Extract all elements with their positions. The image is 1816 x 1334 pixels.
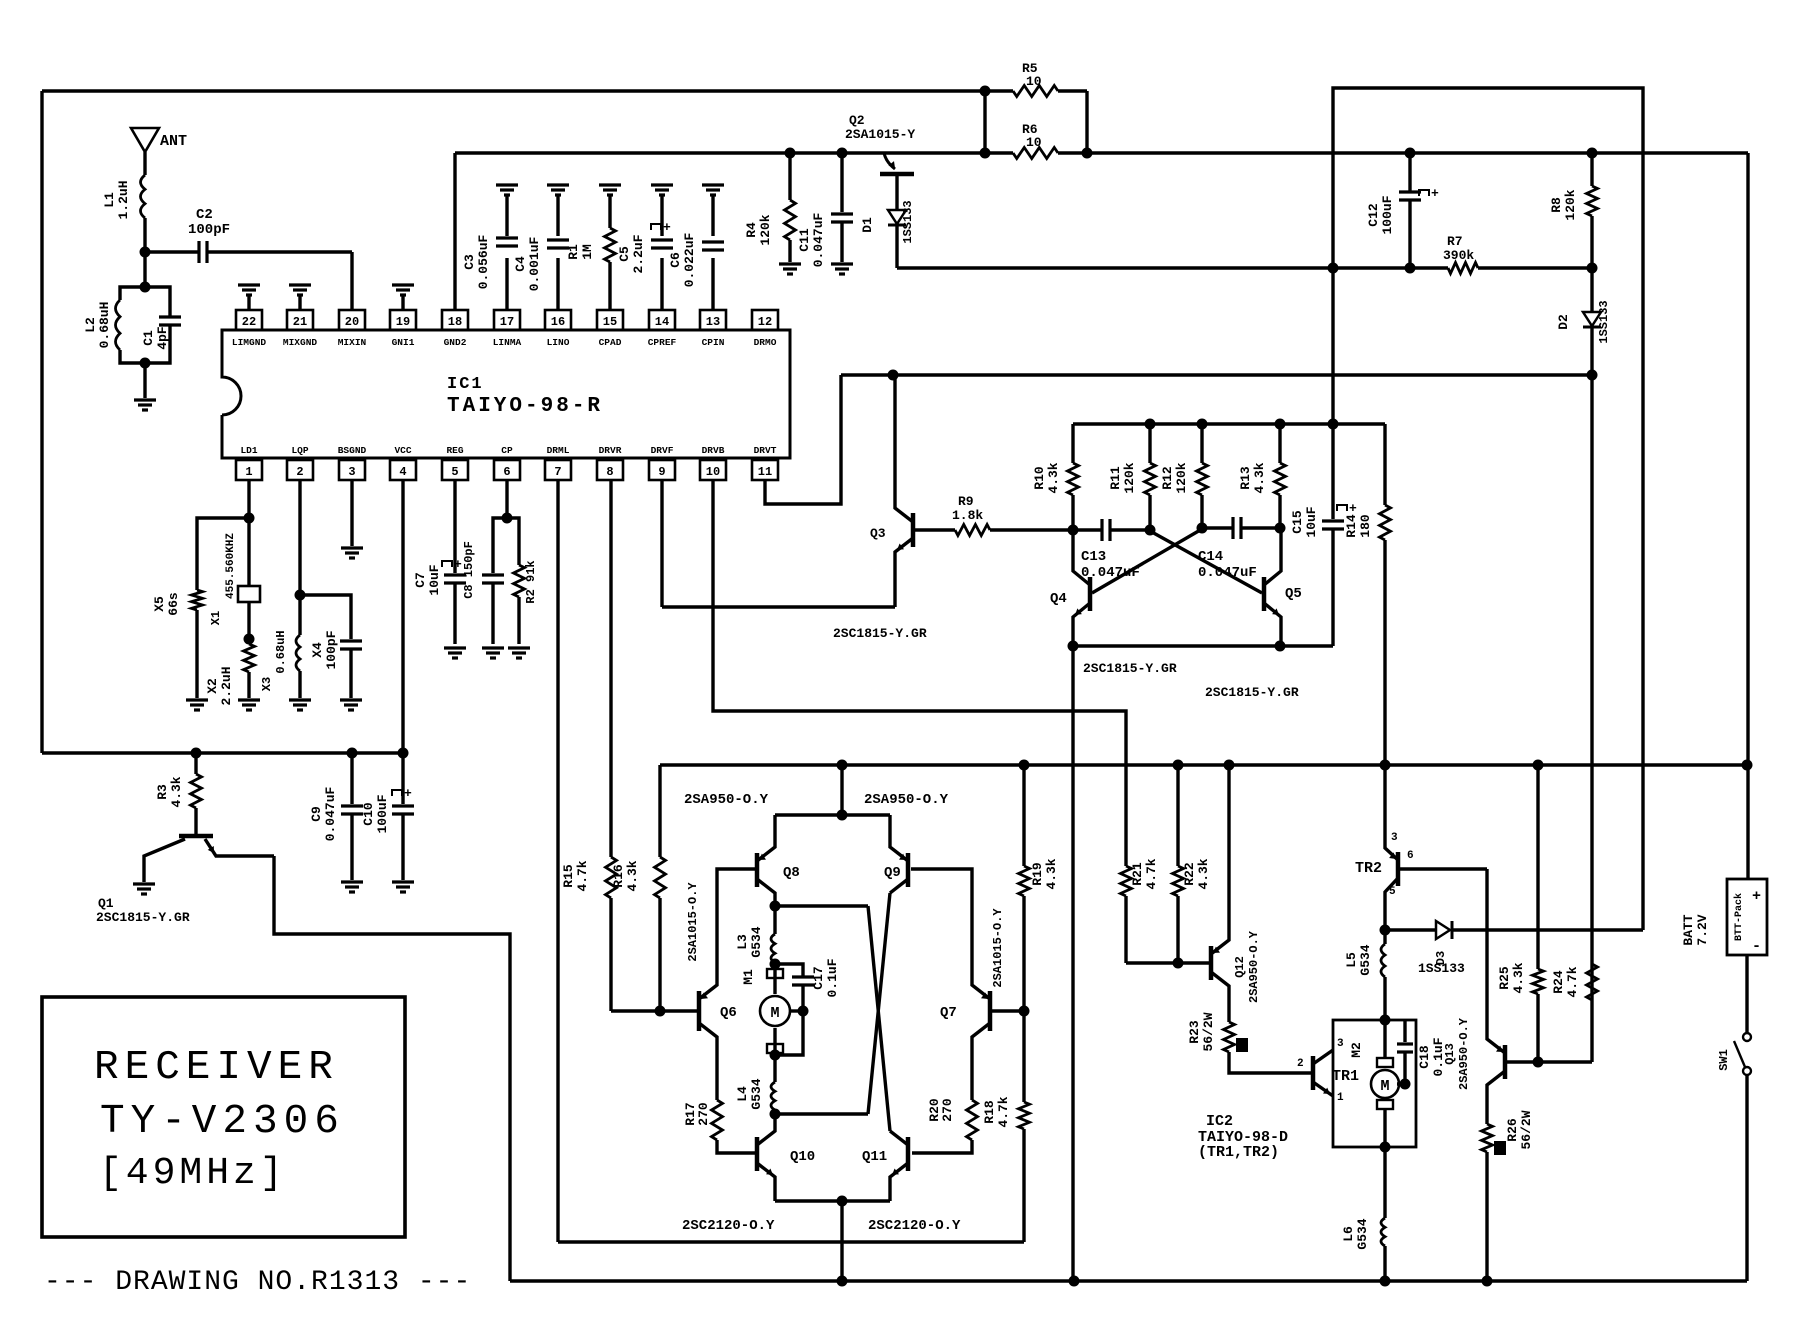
wire D1 output y268 [897, 266, 1448, 269]
svg-text:+: + [663, 220, 671, 235]
svg-text:DRML: DRML [547, 445, 570, 456]
capacitor C12 [1408, 153, 1411, 192]
svg-text:1.8k: 1.8k [952, 508, 983, 523]
battery BATT 7.2V [1727, 879, 1767, 955]
svg-text:CP: CP [501, 445, 513, 456]
svg-text:56/2W: 56/2W [1519, 1110, 1534, 1149]
svg-text:TR1: TR1 [1332, 1068, 1359, 1085]
svg-text:10uF: 10uF [1304, 506, 1319, 537]
svg-text:1: 1 [1337, 1092, 1344, 1104]
transistor TR1 [1311, 1056, 1316, 1090]
svg-text:R8: R8 [1549, 197, 1564, 213]
transistor Q11 2SC2120-O.Y [906, 1137, 911, 1171]
resistor R11 [1148, 424, 1151, 463]
capacitor C6 [711, 196, 714, 236]
inductor L3 G534 [773, 906, 776, 934]
node TR2 collector [1380, 925, 1391, 936]
capacitor C15 [1331, 424, 1334, 519]
capacitor C5 [660, 196, 663, 236]
svg-text:1.2uH: 1.2uH [116, 180, 131, 219]
svg-text:C12: C12 [1366, 203, 1381, 227]
svg-text:CPIN: CPIN [702, 337, 725, 348]
svg-text:Q12: Q12 [1233, 956, 1247, 978]
node R6 right [1082, 148, 1093, 159]
svg-text:X1: X1 [209, 611, 223, 625]
svg-text:X3: X3 [260, 677, 274, 691]
svg-text:R19: R19 [1030, 862, 1045, 886]
pin 2 box [287, 460, 313, 480]
node L2C1 bottom [140, 358, 151, 369]
wire pin18 riser [453, 153, 456, 310]
capacitor C13 [1073, 528, 1102, 531]
transistor Q6 2SA1015-O.Y [697, 991, 702, 1031]
resistor X5 66k [197, 518, 249, 590]
svg-text:120k: 120k [1563, 189, 1578, 220]
svg-text:G534: G534 [749, 926, 764, 957]
node R7 right [1587, 263, 1598, 274]
pin 19 box [390, 310, 416, 330]
svg-text:R25: R25 [1497, 966, 1512, 990]
node R10-C13 [1068, 525, 1079, 536]
inductor L2 [120, 287, 145, 300]
svg-text:2SC1815-Y.GR: 2SC1815-Y.GR [833, 626, 927, 641]
svg-text:(TR1,TR2): (TR1,TR2) [1198, 1144, 1279, 1161]
pin 9 box [649, 460, 675, 480]
svg-text:17: 17 [500, 315, 514, 329]
resistor R3 [194, 753, 197, 774]
resistor R16 [658, 765, 661, 857]
svg-text:R10: R10 [1032, 466, 1047, 490]
node ant-C2 [140, 247, 151, 258]
svg-text:C13: C13 [1081, 549, 1106, 565]
transistor TR2 [1396, 852, 1401, 886]
svg-text:C1: C1 [141, 330, 156, 346]
svg-text:2SA1015-O.Y: 2SA1015-O.Y [991, 908, 1005, 988]
node pin1 [244, 513, 255, 524]
capacitor C11 [840, 153, 843, 212]
svg-text:1SS133: 1SS133 [901, 200, 915, 243]
svg-text:X2: X2 [205, 678, 220, 694]
inductor X3 0.68uH [296, 635, 300, 671]
svg-text:L5: L5 [1344, 952, 1359, 968]
resistor R6 [1013, 148, 1058, 159]
svg-text:LQP: LQP [291, 445, 308, 456]
svg-text:Q4: Q4 [1050, 591, 1067, 607]
transistor Q9 2SA950-O.Y [906, 853, 911, 887]
capacitor X4 100pF [300, 595, 351, 639]
wire cross D2 [868, 893, 890, 1114]
svg-text:+: + [1431, 186, 1439, 201]
svg-text:10uF: 10uF [427, 564, 442, 595]
resistor R2 [507, 518, 519, 565]
pin 8 box [597, 460, 623, 480]
svg-text:4.3k: 4.3k [1046, 462, 1061, 493]
wire top border / V+ rail [42, 89, 1013, 92]
svg-text:ANT: ANT [160, 133, 187, 150]
svg-text:C17: C17 [811, 966, 826, 989]
svg-text:G534: G534 [1358, 944, 1373, 975]
svg-text:2SA1015-O.Y: 2SA1015-O.Y [686, 882, 700, 962]
motor M1 [773, 964, 776, 994]
svg-text:--- DRAWING NO.R1313 ---: --- DRAWING NO.R1313 --- [44, 1267, 471, 1298]
node X1 bottom [244, 634, 255, 645]
svg-text:2SA950-O.Y: 2SA950-O.Y [684, 792, 769, 808]
svg-text:R22: R22 [1182, 862, 1197, 886]
transistor Q4 2SC1815-Y.GR [1088, 577, 1093, 611]
svg-text:RECEIVER: RECEIVER [94, 1045, 339, 1091]
svg-text:4.3k: 4.3k [1511, 962, 1526, 993]
wire cross D1 [775, 904, 868, 907]
svg-text:C2: C2 [196, 207, 213, 223]
svg-text:2SA950-O.Y: 2SA950-O.Y [1247, 930, 1261, 1003]
svg-text:L1: L1 [102, 192, 117, 208]
svg-text:C8 150pF: C8 150pF [462, 541, 476, 599]
wire pin8 riser [609, 480, 612, 857]
wire pin1 down [247, 480, 250, 518]
inductor X2 2.2uH [244, 644, 255, 672]
svg-text:IC1: IC1 [447, 375, 484, 394]
svg-text:C6: C6 [668, 252, 683, 268]
svg-text:4.3k: 4.3k [625, 860, 640, 891]
node Q8 collector [770, 901, 781, 912]
svg-text:120k: 120k [1122, 462, 1137, 493]
svg-text:R12: R12 [1160, 466, 1175, 490]
pin 18 box [442, 310, 468, 330]
svg-text:2.2uH: 2.2uH [219, 666, 234, 705]
svg-text:Q1: Q1 [98, 896, 114, 911]
resistor R1 [608, 196, 611, 228]
wire osc bottom rail [1073, 644, 1333, 647]
transistor Q5 2SC1815-Y.GR [1262, 577, 1267, 611]
inductor L6 G534 [1383, 1147, 1386, 1218]
node bus osc [1069, 1276, 1080, 1287]
svg-text:8: 8 [606, 465, 613, 479]
svg-text:R24: R24 [1551, 970, 1566, 994]
motor M2 box [1333, 1020, 1416, 1147]
svg-text:0.047uF: 0.047uF [323, 786, 338, 841]
transistor Q12 2SA950-O.Y [1209, 946, 1214, 980]
svg-text:2SC1815-Y.GR: 2SC1815-Y.GR [96, 910, 190, 925]
title box RECEIVER TY-V2306 [42, 997, 405, 1237]
capacitor C3 [505, 196, 508, 236]
svg-text:10: 10 [706, 465, 720, 479]
wire main bus y765 [660, 763, 1747, 766]
svg-text:0.001uF: 0.001uF [527, 236, 542, 291]
inductor L5 G534 [1383, 930, 1386, 944]
node Q13 base [1533, 1057, 1544, 1068]
inductor L1 [141, 175, 146, 218]
wire pin9 to Q3 [660, 480, 663, 607]
ground Q1 [133, 882, 155, 885]
svg-text:CPREF: CPREF [648, 337, 677, 348]
wire pin2 down [298, 480, 301, 595]
resistor R17 [712, 1100, 723, 1140]
wire left border down to ground bus [40, 91, 43, 753]
IC U1 TAIYO-98-R body [222, 330, 790, 458]
pin 11 box [752, 460, 778, 480]
svg-text:MIXIN: MIXIN [338, 337, 367, 348]
resistor R24 [1587, 964, 1598, 1000]
resistor R13 [1278, 424, 1281, 463]
svg-text:+: + [1752, 888, 1761, 905]
wire Q5 cross-couple [1150, 531, 1262, 593]
resistor R4 [788, 153, 791, 200]
svg-text:1: 1 [245, 465, 252, 479]
resistor R14 [1383, 424, 1386, 505]
svg-text:L6: L6 [1341, 1226, 1356, 1242]
resistor R8 [1590, 153, 1593, 186]
svg-text:3: 3 [1337, 1038, 1344, 1050]
svg-text:270: 270 [940, 1098, 955, 1122]
resistor R10 [1071, 424, 1074, 463]
wire ground bus left [42, 751, 404, 754]
svg-text:L2: L2 [83, 317, 98, 333]
svg-text:6: 6 [503, 465, 510, 479]
svg-text:100uF: 100uF [1380, 195, 1395, 234]
svg-text:4pF: 4pF [155, 326, 170, 350]
svg-text:MIXGND: MIXGND [283, 337, 318, 348]
svg-text:Q2: Q2 [849, 113, 865, 128]
svg-text:R26: R26 [1505, 1118, 1520, 1142]
pin 20 box [339, 310, 365, 330]
motor M2 [1383, 1020, 1386, 1058]
node C12 bottom [1405, 263, 1416, 274]
svg-text:+: + [404, 786, 412, 801]
wire D2 to R24 x1592 [1590, 375, 1593, 1062]
svg-text:7: 7 [554, 465, 561, 479]
svg-text:15: 15 [603, 315, 617, 329]
svg-text:5: 5 [451, 465, 458, 479]
diode D2 1SS133 [1590, 268, 1593, 312]
pin 1 box [236, 460, 262, 480]
diode D3 1SS133 [1385, 928, 1436, 931]
svg-text:3: 3 [1391, 832, 1398, 844]
pin 10 box [700, 460, 726, 480]
wire top-right loop [1333, 88, 1643, 930]
svg-text:BSGND: BSGND [338, 445, 367, 456]
pin 17 box [494, 310, 520, 330]
svg-text:Q6: Q6 [720, 1005, 737, 1021]
svg-text:1M: 1M [580, 244, 595, 260]
svg-text:Q9: Q9 [884, 865, 901, 881]
transistor Q3 2SC1815-Y.GR [911, 513, 916, 547]
svg-text:L4: L4 [735, 1086, 750, 1102]
svg-text:L3: L3 [735, 934, 750, 950]
svg-text:0.1uF: 0.1uF [825, 958, 840, 997]
svg-text:C5: C5 [617, 246, 632, 262]
pin 15 box [597, 310, 623, 330]
pin 6 box [494, 460, 520, 480]
node pin6 [502, 513, 513, 524]
svg-text:14: 14 [655, 315, 669, 329]
svg-text:100pF: 100pF [324, 630, 339, 669]
svg-text:DRVF: DRVF [651, 445, 674, 456]
svg-text:22: 22 [242, 315, 256, 329]
inductor L4 G534 [773, 1055, 776, 1082]
capacitor C4 [556, 196, 559, 236]
svg-text:R23: R23 [1187, 1020, 1202, 1044]
node L2C1 top [140, 282, 151, 293]
capacitor C14 [1202, 526, 1233, 529]
svg-text:19: 19 [396, 315, 410, 329]
capacitor C2 [145, 250, 199, 253]
svg-text:M1: M1 [741, 969, 756, 985]
resistor R18 [1022, 1011, 1025, 1102]
svg-text:4.7k: 4.7k [575, 860, 590, 891]
svg-text:Q7: Q7 [940, 1005, 957, 1021]
svg-text:6: 6 [1407, 850, 1414, 862]
svg-text:LD1: LD1 [240, 445, 257, 456]
svg-text:R4: R4 [744, 222, 759, 238]
svg-text:C9: C9 [309, 806, 324, 822]
svg-text:C14: C14 [1198, 549, 1223, 565]
svg-text:D1: D1 [860, 217, 875, 233]
wire osc emitter down [1071, 646, 1074, 1281]
svg-text:16: 16 [551, 315, 565, 329]
resistor R26 56/2W [1482, 1124, 1493, 1152]
wire bottom bus [510, 1279, 1747, 1282]
resistor R20 [967, 1100, 978, 1140]
diode D1 1SS133 [895, 174, 898, 210]
svg-text:180: 180 [1358, 514, 1373, 538]
svg-text:C3: C3 [462, 254, 477, 270]
transistor Q7 2SA1015-O.Y [988, 991, 993, 1031]
svg-text:4.7k: 4.7k [996, 1096, 1011, 1127]
svg-text:VCC: VCC [394, 445, 411, 456]
svg-text:Q13: Q13 [1443, 1043, 1457, 1065]
wire collector rail y375 [841, 373, 1592, 376]
node y268-left [1328, 263, 1339, 274]
node pin2 [295, 590, 306, 601]
svg-text:D2: D2 [1556, 314, 1571, 330]
svg-text:2: 2 [1297, 1058, 1304, 1070]
svg-text:2: 2 [296, 465, 303, 479]
wire pin10 route [713, 480, 1126, 866]
svg-text:R9: R9 [958, 494, 974, 509]
pin 14 box [649, 310, 675, 330]
wire right rail down x1748 [1746, 153, 1749, 879]
node R12-C14 [1197, 523, 1208, 534]
svg-text:R13: R13 [1238, 466, 1253, 490]
svg-text:R15: R15 [561, 864, 576, 888]
wire pin7 riser [556, 480, 559, 1242]
capacitor C18 [1403, 1020, 1406, 1042]
node L4 top [770, 1050, 781, 1061]
svg-text:LINO: LINO [547, 337, 570, 348]
svg-text:+: + [1349, 501, 1357, 516]
wire pin4 VCC [401, 480, 404, 753]
svg-text:3: 3 [348, 465, 355, 479]
pin 5 box [442, 460, 468, 480]
resistor R23 56/2W [1224, 1022, 1235, 1052]
svg-text:IC2: IC2 [1206, 1113, 1233, 1130]
wire C2 to pin20 [350, 252, 353, 310]
ground ant [134, 398, 156, 401]
transistor Q2 2SA1015-Y [880, 172, 914, 177]
wire pin11 route [765, 375, 841, 504]
pin 22 box [236, 310, 262, 330]
capacitor C9 [350, 753, 353, 804]
svg-text:GNI1: GNI1 [392, 337, 415, 348]
svg-text:G534: G534 [749, 1078, 764, 1109]
svg-text:4.3k: 4.3k [1044, 858, 1059, 889]
svg-text:100uF: 100uF [375, 794, 390, 833]
svg-text:M: M [1380, 1078, 1389, 1095]
wire osc top rail [1073, 422, 1385, 425]
transistor Q1 2SC1815-Y.GR [179, 834, 213, 839]
svg-text:Q8: Q8 [783, 865, 800, 881]
ground pin21 [298, 294, 301, 310]
resistor R22 [1176, 765, 1179, 866]
svg-text:13: 13 [706, 315, 720, 329]
svg-text:4.7k: 4.7k [1144, 858, 1159, 889]
svg-text:10: 10 [1026, 135, 1042, 150]
pin 16 box [545, 310, 571, 330]
wire bridge top node [775, 813, 890, 816]
svg-text:R14: R14 [1344, 514, 1359, 538]
node bus-C9 [347, 748, 358, 759]
svg-text:2SA950-O.Y: 2SA950-O.Y [864, 792, 949, 808]
svg-text:0.047uF: 0.047uF [811, 212, 826, 267]
svg-text:R2 91k: R2 91k [524, 560, 538, 603]
node L4 bottom [770, 1109, 781, 1120]
svg-text:Q11: Q11 [862, 1149, 887, 1165]
svg-text:DRVR: DRVR [599, 445, 622, 456]
wire pin6 down [505, 480, 508, 518]
capacitor C7 [453, 480, 456, 573]
ground pin3 [350, 480, 353, 546]
svg-text:DRVT: DRVT [754, 445, 777, 456]
svg-text:5: 5 [1389, 886, 1396, 898]
svg-text:X5: X5 [152, 596, 167, 612]
svg-text:455.560KHZ: 455.560KHZ [225, 533, 237, 599]
svg-text:2SA1015-Y: 2SA1015-Y [845, 127, 915, 142]
svg-text:LIMGND: LIMGND [232, 337, 267, 348]
svg-text:1SS133: 1SS133 [1418, 961, 1465, 976]
svg-text:100pF: 100pF [188, 222, 230, 238]
svg-text:11: 11 [758, 465, 772, 479]
wire bridge box bottom [558, 1240, 1024, 1243]
resistor R25 [1536, 765, 1539, 969]
svg-text:X4: X4 [310, 642, 325, 658]
wire Q4 cross-couple [1092, 529, 1202, 593]
svg-text:2SA950-O.Y: 2SA950-O.Y [1457, 1017, 1471, 1090]
resistor R19 [1022, 765, 1025, 866]
svg-text:120k: 120k [1174, 462, 1189, 493]
svg-text:TR2: TR2 [1355, 860, 1382, 877]
capacitor C8 [493, 518, 507, 573]
svg-text:DRVB: DRVB [702, 445, 725, 456]
capacitor C10 [401, 753, 404, 804]
wire main rail y153 [455, 151, 1013, 154]
svg-text:21: 21 [293, 315, 307, 329]
svg-text:+: + [454, 557, 462, 572]
node Q3 collector [888, 370, 899, 381]
ground pin22 [247, 294, 250, 310]
pin 4 box [390, 460, 416, 480]
svg-text:4.3k: 4.3k [169, 776, 184, 807]
resistor R15 [606, 857, 617, 898]
svg-text:BATT: BATT [1681, 914, 1696, 945]
svg-text:20: 20 [345, 315, 359, 329]
svg-text:2SC1815-Y.GR: 2SC1815-Y.GR [1083, 661, 1177, 676]
wire R5-R6 link x985 [983, 91, 986, 153]
resistor R7 [1448, 263, 1478, 274]
switch SW1 [1745, 955, 1748, 1032]
svg-text:2SC1815-Y.GR: 2SC1815-Y.GR [1205, 685, 1299, 700]
wire bridge bottom node [775, 1199, 890, 1202]
svg-text:GND2: GND2 [444, 337, 467, 348]
